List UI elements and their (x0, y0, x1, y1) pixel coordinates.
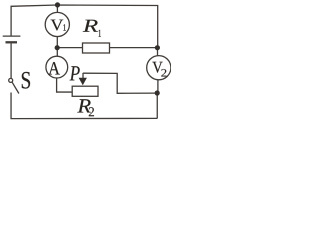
voltmeter V2 circle (147, 56, 171, 80)
resistor R1 rect (83, 43, 110, 53)
label R1-1 (99, 30, 102, 37)
label R2-R (77, 99, 91, 112)
label A (48, 62, 60, 74)
battery short plate (6, 41, 18, 43)
rheostat R2 rect (72, 86, 98, 96)
node dot below V2 (155, 90, 160, 95)
label R2-2 (89, 107, 94, 116)
label V2-V (152, 62, 162, 73)
switch S hinge (9, 78, 13, 82)
node dot below V1 (55, 45, 60, 50)
label V1-1 (63, 24, 66, 30)
wiper wire to V2 junction (83, 73, 157, 93)
wire node to R1 (57, 47, 82, 49)
label R1-R (83, 20, 98, 32)
label S (22, 72, 30, 89)
wire battery to switch (10, 44, 12, 79)
wiper arrow head (79, 78, 87, 86)
wire V2 to bottom junction (157, 80, 159, 93)
battery long plate (3, 35, 21, 37)
wire stub top of V2 (157, 48, 159, 56)
ammeter A circle (46, 56, 68, 78)
node dot on top wire (55, 2, 60, 7)
switch S blade (12, 82, 19, 93)
wire A to R2 left terminal (57, 78, 73, 92)
node dot right border R1 row (155, 45, 160, 50)
wire V1 to node A (56, 37, 58, 56)
wire switch to bottom-left corner (11, 93, 157, 119)
wire stub top of V1 (56, 5, 58, 12)
wiper arrow stem P (82, 73, 84, 79)
label V1-V (51, 20, 64, 31)
voltmeter V1 circle (45, 12, 69, 36)
wire R1 to right border (110, 47, 158, 49)
label V2-2 (161, 69, 166, 76)
label P (70, 66, 80, 80)
wire junction to bottom-right corner (156, 93, 158, 119)
wire top (11, 5, 158, 48)
